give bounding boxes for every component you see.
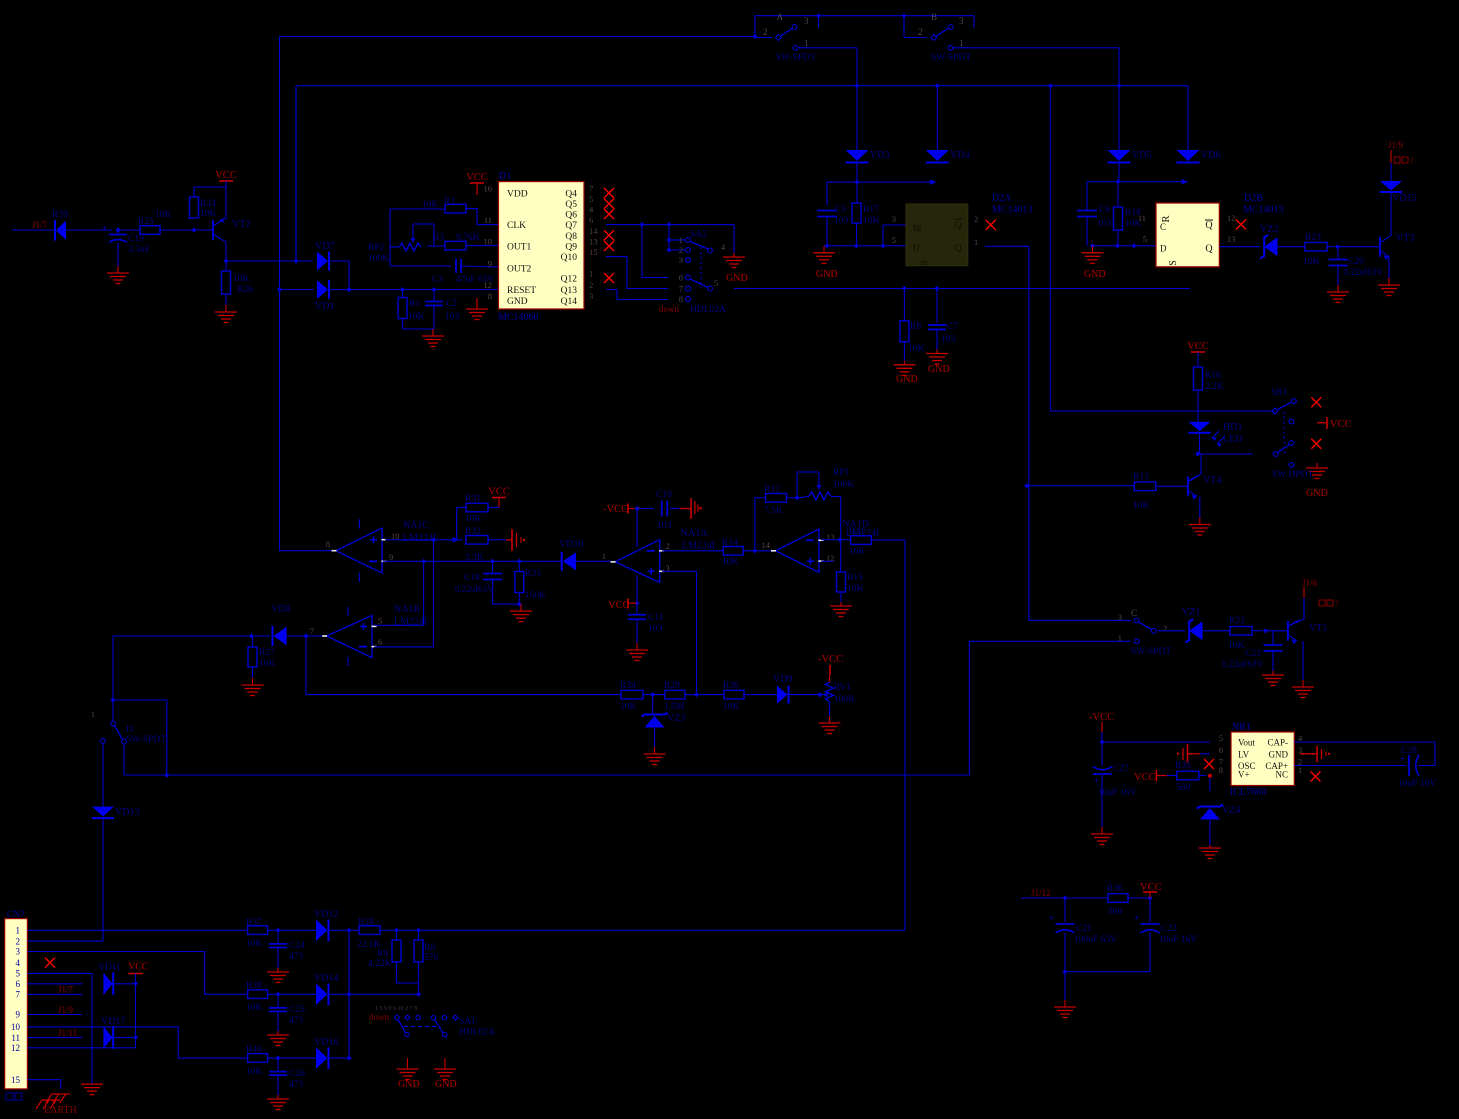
svg-text:9: 9	[16, 1010, 21, 1020]
svg-text:VD11: VD11	[98, 963, 121, 973]
svg-text:VCC: VCC	[128, 962, 149, 973]
svg-text:R38: R38	[246, 981, 262, 991]
svg-text:+: +	[102, 223, 107, 233]
svg-text:0.22uf/63V: 0.22uf/63V	[1222, 659, 1264, 669]
svg-text:R36: R36	[1107, 884, 1123, 894]
svg-text:J1/7: J1/7	[32, 220, 48, 230]
svg-text:Q5: Q5	[565, 200, 577, 210]
svg-text:VD5: VD5	[1132, 150, 1151, 161]
svg-text:10: 10	[11, 1022, 21, 1032]
svg-text:13: 13	[826, 532, 835, 542]
svg-text:10K: 10K	[847, 584, 864, 594]
svg-text:10K: 10K	[723, 702, 740, 712]
svg-text:R12: R12	[764, 485, 780, 495]
svg-text:VD14: VD14	[314, 973, 338, 984]
svg-text:+: +	[1134, 913, 1139, 923]
svg-text:R33: R33	[525, 569, 541, 579]
svg-text:EARTH: EARTH	[44, 1105, 77, 1116]
svg-text:10uF 16V: 10uF 16V	[1398, 779, 1436, 789]
svg-text:VCC: VCC	[608, 600, 630, 611]
svg-text:3: 3	[804, 16, 809, 26]
svg-text:GND: GND	[1084, 269, 1106, 280]
svg-text:103: 103	[648, 624, 663, 634]
svg-text:R22: R22	[1229, 616, 1245, 626]
svg-text:1.5M: 1.5M	[664, 702, 685, 712]
svg-text:C23: C23	[1245, 649, 1261, 659]
svg-text:3: 3	[959, 16, 964, 26]
svg-text:SB1: SB1	[1271, 388, 1288, 398]
svg-text:473: 473	[289, 1080, 304, 1090]
svg-text:HDL02A: HDL02A	[459, 1028, 495, 1038]
svg-text:NA1A: NA1A	[681, 528, 708, 539]
svg-text:10K: 10K	[246, 939, 263, 949]
svg-text:100K: 100K	[834, 695, 855, 705]
svg-text:R25: R25	[138, 217, 154, 227]
svg-text:NC: NC	[1275, 770, 1288, 780]
svg-text:VD3: VD3	[870, 150, 889, 161]
svg-text:R32: R32	[465, 527, 481, 537]
svg-text:VT3: VT3	[1396, 233, 1414, 244]
svg-text:Q4: Q4	[565, 190, 577, 200]
svg-text:R24: R24	[200, 199, 216, 209]
svg-text:103: 103	[657, 521, 672, 531]
svg-text:C: C	[1131, 608, 1137, 618]
svg-text:C5: C5	[835, 205, 846, 215]
svg-text:Q7: Q7	[565, 221, 577, 231]
svg-text:RESET: RESET	[507, 286, 536, 296]
svg-text:C21: C21	[1076, 924, 1092, 934]
svg-text:C27: C27	[1113, 764, 1129, 774]
svg-text:SW DPDT: SW DPDT	[1272, 470, 1313, 480]
svg-text:10K: 10K	[849, 547, 866, 557]
svg-text:Q: Q	[1205, 244, 1213, 255]
svg-text:VD13: VD13	[115, 807, 139, 818]
svg-text:GND: GND	[435, 1079, 457, 1090]
svg-text:2: 2	[918, 27, 923, 37]
svg-text:SW-SPDT: SW-SPDT	[126, 735, 166, 745]
svg-text:GND: GND	[1306, 488, 1328, 499]
svg-text:VCC: VCC	[1187, 341, 1209, 352]
svg-text:J1/12: J1/12	[1031, 888, 1051, 898]
svg-text:VT2: VT2	[232, 219, 250, 230]
svg-text:R2: R2	[444, 197, 455, 207]
svg-text:100uF 63V: 100uF 63V	[1074, 935, 1117, 945]
svg-text:A: A	[777, 12, 784, 22]
svg-text:R8: R8	[910, 322, 921, 332]
svg-text:3: 3	[679, 255, 683, 265]
svg-text:7: 7	[16, 990, 21, 1000]
svg-text:VZ2: VZ2	[1260, 224, 1278, 235]
svg-text:VCC: VCC	[488, 487, 510, 498]
svg-text:VZ4: VZ4	[1222, 805, 1240, 816]
svg-text:1: 1	[16, 926, 21, 936]
svg-text:C11: C11	[648, 613, 664, 623]
svg-text:LM224I: LM224I	[403, 533, 436, 544]
svg-text:RP1: RP1	[833, 468, 850, 478]
svg-text:B: B	[931, 12, 937, 22]
svg-text:LM224I: LM224I	[682, 541, 715, 552]
svg-text:Q9: Q9	[565, 243, 577, 253]
svg-text:7.5K: 7.5K	[764, 506, 783, 516]
svg-text:1: 1	[589, 269, 593, 279]
svg-text:Vout: Vout	[1238, 738, 1255, 748]
svg-text:1: 1	[91, 710, 95, 719]
svg-text:R8: R8	[424, 943, 435, 953]
svg-text:0: 0	[679, 273, 683, 283]
svg-text:10K: 10K	[620, 702, 637, 712]
svg-text:C: C	[1160, 222, 1166, 232]
svg-text:VD6: VD6	[1201, 150, 1220, 161]
svg-text:6: 6	[378, 637, 382, 647]
svg-text:C20: C20	[1348, 257, 1364, 267]
svg-text:103: 103	[834, 216, 849, 226]
svg-text:R9: R9	[377, 949, 388, 959]
svg-text:6: 6	[1219, 745, 1223, 755]
svg-text:5: 5	[892, 235, 896, 245]
svg-text:SA2: SA2	[690, 230, 707, 240]
svg-text:MC14060: MC14060	[498, 312, 539, 323]
svg-text:-VCC: -VCC	[1089, 712, 1114, 723]
svg-text:Q: Q	[954, 243, 962, 254]
svg-text:473: 473	[289, 1016, 304, 1026]
svg-text:C24: C24	[289, 941, 305, 951]
svg-text:SW-SPDT: SW-SPDT	[931, 53, 971, 63]
svg-text:10K: 10K	[246, 1003, 263, 1013]
svg-text:J1/9: J1/9	[58, 1005, 74, 1015]
svg-text:Q: Q	[1205, 220, 1213, 231]
svg-text:MC14013: MC14013	[1243, 205, 1284, 216]
svg-text:down: down	[659, 304, 679, 314]
svg-text:SA1: SA1	[459, 1017, 476, 1027]
svg-text:J1/7: J1/7	[58, 985, 74, 995]
svg-text:1: 1	[1298, 765, 1302, 775]
svg-text:R26: R26	[237, 285, 253, 295]
svg-text:VD17: VD17	[101, 1016, 125, 1027]
svg-text:1: 1	[959, 38, 964, 48]
svg-text:1 5 9 0 6 10 2 7 8: 1 5 9 0 6 10 2 7 8	[375, 1006, 417, 1012]
svg-text:8: 8	[1219, 765, 1223, 775]
svg-text:R40: R40	[246, 1045, 262, 1055]
svg-text:103: 103	[941, 335, 956, 345]
svg-text:13: 13	[1227, 234, 1236, 244]
svg-text:1: 1	[974, 237, 978, 247]
svg-text:16: 16	[484, 184, 493, 194]
svg-text:J1/9: J1/9	[1388, 140, 1404, 150]
svg-text:1: 1	[602, 551, 606, 561]
svg-text:LV: LV	[1238, 749, 1250, 759]
svg-text:Q8: Q8	[565, 232, 577, 242]
svg-text:S: S	[919, 260, 930, 266]
svg-text:C3: C3	[432, 275, 443, 285]
svg-text:Q13: Q13	[561, 286, 578, 296]
svg-text:D: D	[913, 243, 920, 253]
svg-text:D2B: D2B	[1244, 193, 1263, 204]
svg-text:-VCC: -VCC	[603, 504, 628, 515]
svg-text:R37: R37	[246, 918, 262, 928]
svg-text:6: 6	[589, 215, 593, 225]
svg-text:Q14: Q14	[561, 297, 578, 307]
svg-text:1: 1	[679, 235, 683, 245]
svg-text:8: 8	[326, 539, 330, 549]
svg-text:V+: V+	[1238, 770, 1250, 780]
svg-text:VD8: VD8	[271, 604, 290, 615]
svg-text:3.3nF: 3.3nF	[128, 245, 150, 255]
svg-text:VD7: VD7	[315, 241, 334, 252]
svg-text:6: 6	[16, 979, 21, 989]
svg-text:3: 3	[1118, 612, 1122, 622]
svg-text:C2: C2	[446, 299, 457, 309]
svg-text:LED: LED	[1223, 434, 1242, 445]
svg-text:10K: 10K	[863, 216, 880, 226]
svg-text:11: 11	[484, 215, 492, 225]
svg-text:VDD: VDD	[507, 190, 528, 200]
svg-text:103: 103	[445, 312, 460, 322]
svg-text:R31: R31	[465, 494, 481, 504]
svg-text:7: 7	[679, 284, 683, 294]
svg-text:10K: 10K	[1133, 501, 1150, 511]
svg-text:14: 14	[589, 226, 598, 236]
svg-text:C28: C28	[1401, 746, 1417, 756]
svg-text:R17: R17	[863, 205, 879, 215]
svg-text:D2A: D2A	[992, 193, 1012, 204]
svg-text:CLK: CLK	[507, 221, 526, 231]
svg-text:11: 11	[1138, 213, 1146, 223]
svg-text:VD9: VD9	[773, 674, 792, 685]
svg-text:8: 8	[488, 291, 492, 301]
svg-text:12: 12	[11, 1043, 20, 1053]
svg-text:2: 2	[16, 936, 21, 946]
svg-text:15: 15	[589, 247, 598, 257]
svg-text:VD10: VD10	[559, 539, 583, 550]
svg-text:S: S	[1168, 260, 1179, 266]
svg-text:C6: C6	[1099, 205, 1110, 215]
svg-text:R35: R35	[1175, 761, 1191, 771]
svg-text:GND: GND	[398, 1079, 420, 1090]
svg-text:GND: GND	[816, 269, 838, 280]
svg-text:VT4: VT4	[1203, 475, 1221, 486]
svg-text:ICL7660: ICL7660	[1230, 787, 1266, 798]
svg-text:?: ?	[1410, 156, 1414, 165]
svg-text:560: 560	[1108, 907, 1123, 917]
svg-text:100K: 100K	[833, 480, 854, 490]
svg-text:D: D	[1160, 244, 1167, 254]
svg-text:R27: R27	[259, 648, 275, 658]
svg-text:10K: 10K	[233, 274, 250, 284]
svg-text:R1: R1	[409, 299, 420, 309]
svg-text:down: down	[369, 1012, 389, 1022]
svg-text:R39: R39	[52, 210, 68, 220]
svg-text:Q12: Q12	[561, 275, 578, 285]
svg-text:VT1: VT1	[1309, 623, 1327, 634]
svg-text:VD16: VD16	[314, 1037, 338, 1048]
svg-text:?: ?	[1335, 599, 1339, 608]
svg-text:Q: Q	[954, 220, 962, 231]
svg-text:4: 4	[16, 958, 21, 968]
svg-text:VD12: VD12	[314, 909, 338, 920]
svg-text:4.22K: 4.22K	[368, 959, 392, 969]
svg-text:VCC: VCC	[1134, 772, 1156, 783]
svg-text:7: 7	[310, 626, 314, 636]
svg-text:7: 7	[589, 184, 593, 194]
svg-text:10K: 10K	[408, 312, 425, 322]
svg-text:10K: 10K	[465, 514, 482, 524]
svg-text:R29: R29	[664, 681, 680, 691]
svg-text:SW-SPDT: SW-SPDT	[776, 53, 816, 63]
svg-text:R11: R11	[849, 527, 865, 537]
svg-text:10K: 10K	[1228, 641, 1245, 651]
svg-text:9: 9	[389, 552, 393, 562]
svg-text:5: 5	[378, 616, 382, 626]
svg-text:473: 473	[289, 952, 304, 962]
svg-text:VCC: VCC	[466, 172, 488, 183]
svg-text:0.22uf63V: 0.22uf63V	[1344, 267, 1383, 277]
svg-text:5: 5	[16, 969, 21, 979]
svg-text:C22: C22	[1161, 924, 1177, 934]
svg-text:10K: 10K	[722, 557, 739, 567]
svg-text:CAP-: CAP-	[1267, 738, 1288, 748]
svg-text:5: 5	[1143, 234, 1147, 244]
svg-text:1: 1	[804, 38, 809, 48]
svg-text:GND: GND	[1269, 749, 1289, 759]
svg-text:103: 103	[1097, 219, 1112, 229]
svg-text:Q6: Q6	[565, 211, 577, 221]
svg-text:2.2K: 2.2K	[1205, 382, 1224, 392]
svg-text:10: 10	[484, 237, 493, 247]
svg-text:VCC: VCC	[1330, 419, 1352, 430]
svg-text:9: 9	[488, 258, 492, 268]
svg-text:3: 3	[892, 214, 896, 224]
svg-text:5: 5	[589, 194, 593, 204]
svg-text:15: 15	[11, 1075, 21, 1085]
svg-text:100K: 100K	[368, 254, 389, 264]
svg-text:HDL02A: HDL02A	[690, 305, 726, 315]
svg-text:C18: C18	[464, 573, 480, 583]
svg-text:560: 560	[1176, 783, 1191, 793]
svg-text:C10: C10	[656, 490, 672, 500]
svg-text:2: 2	[1163, 623, 1167, 633]
svg-text:GND: GND	[507, 297, 528, 307]
svg-text:NR1: NR1	[1232, 722, 1251, 733]
svg-text:2: 2	[763, 27, 768, 37]
svg-text:RP2: RP2	[368, 243, 385, 253]
svg-text:+: +	[1049, 913, 1054, 923]
svg-text:R15: R15	[847, 573, 863, 583]
svg-text:10uF 16V: 10uF 16V	[1159, 935, 1197, 945]
svg-text:10K: 10K	[422, 200, 439, 210]
svg-text:R16: R16	[1205, 371, 1221, 381]
svg-text:R34: R34	[620, 681, 636, 691]
svg-text:10K: 10K	[200, 209, 217, 219]
svg-text:VCC: VCC	[215, 170, 237, 181]
svg-text:1: 1	[1118, 633, 1122, 643]
svg-text:13: 13	[589, 237, 598, 247]
svg-text:NA1C: NA1C	[403, 520, 429, 531]
svg-text:HD1: HD1	[1223, 422, 1242, 433]
svg-text:-VCC: -VCC	[818, 654, 843, 665]
svg-text:VD15: VD15	[1392, 193, 1416, 204]
svg-text:12: 12	[1227, 213, 1236, 223]
svg-text:C: C	[913, 222, 919, 232]
svg-text:R28: R28	[358, 918, 374, 928]
svg-text:3: 3	[16, 947, 21, 957]
svg-text:MC14013: MC14013	[992, 205, 1033, 216]
svg-text:GND: GND	[928, 364, 950, 375]
svg-text:2: 2	[589, 280, 593, 290]
svg-text:J1/6: J1/6	[1302, 578, 1318, 588]
svg-text:+: +	[1094, 776, 1099, 786]
svg-text:10K: 10K	[155, 210, 172, 220]
svg-text:12: 12	[484, 280, 493, 290]
svg-text:R23: R23	[1305, 233, 1321, 243]
svg-text:5: 5	[714, 278, 718, 288]
svg-text:2: 2	[679, 245, 683, 255]
svg-text:10K: 10K	[259, 659, 276, 669]
svg-text:14: 14	[762, 540, 771, 550]
svg-text:SW-SPDT: SW-SPDT	[1131, 647, 1171, 657]
svg-text:5: 5	[1219, 733, 1223, 743]
svg-text:C25: C25	[289, 1005, 305, 1015]
svg-text:D: D	[126, 725, 133, 735]
svg-text:C7: C7	[947, 322, 958, 332]
svg-text:OUT1: OUT1	[507, 243, 532, 253]
svg-text:CN?: CN?	[7, 910, 24, 920]
svg-text:2: 2	[974, 214, 978, 224]
svg-text:Q10: Q10	[561, 253, 578, 263]
svg-text:R14: R14	[722, 538, 738, 548]
svg-text:C19: C19	[128, 234, 144, 244]
svg-text:GND: GND	[726, 273, 748, 284]
svg-text:11: 11	[11, 1033, 20, 1043]
svg-text:VZ1: VZ1	[1182, 607, 1200, 618]
svg-text:150K: 150K	[525, 591, 546, 601]
svg-text:RV1: RV1	[834, 683, 851, 693]
svg-text:10K: 10K	[1303, 257, 1320, 267]
svg-text:VD1: VD1	[315, 301, 334, 312]
svg-text:2: 2	[666, 541, 670, 551]
svg-text:GND: GND	[896, 374, 918, 385]
svg-text:10uF 16V: 10uF 16V	[1098, 788, 1136, 798]
svg-text:8: 8	[679, 294, 683, 304]
svg-text:OUT2: OUT2	[507, 264, 532, 274]
svg-text:R13: R13	[1133, 472, 1149, 482]
svg-text:C26: C26	[289, 1069, 305, 1079]
svg-text:NA1B: NA1B	[394, 604, 420, 615]
svg-text:VD4: VD4	[950, 150, 969, 161]
svg-text:D1: D1	[499, 171, 511, 182]
svg-text:10K: 10K	[246, 1067, 263, 1077]
svg-text:9.76K: 9.76K	[456, 233, 480, 243]
svg-text:VZ3: VZ3	[667, 713, 685, 724]
svg-text:10K: 10K	[908, 344, 925, 354]
svg-text:J1/11: J1/11	[58, 1028, 77, 1038]
svg-text:576: 576	[424, 953, 439, 963]
svg-text:R30: R30	[723, 681, 739, 691]
svg-text:R3: R3	[433, 233, 444, 243]
svg-text:0.22uf63V: 0.22uf63V	[455, 584, 494, 594]
svg-text:3: 3	[589, 291, 593, 301]
